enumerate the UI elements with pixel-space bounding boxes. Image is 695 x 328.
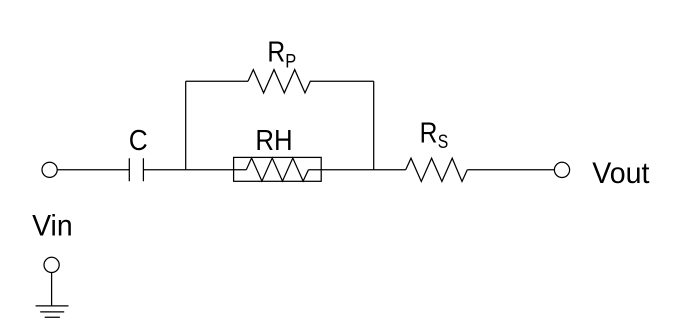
svg-text:C: C [129, 125, 148, 157]
svg-text:RH: RH [255, 125, 292, 157]
svg-text:S: S [438, 132, 449, 153]
svg-text:R: R [420, 117, 438, 149]
svg-text:R: R [267, 37, 285, 69]
svg-text:Vout: Vout [592, 157, 650, 190]
svg-text:P: P [285, 52, 296, 73]
svg-text:Vin: Vin [32, 209, 73, 242]
